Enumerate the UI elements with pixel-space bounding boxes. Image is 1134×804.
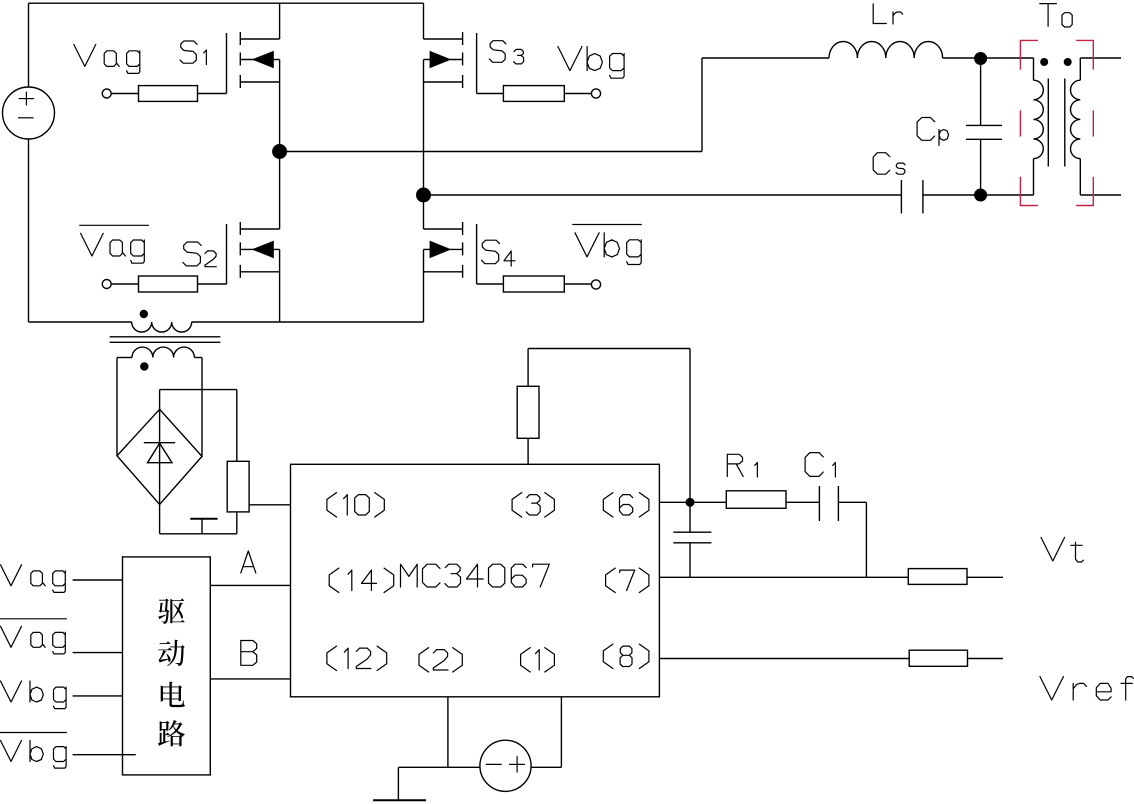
- wire: [943, 57, 981, 59]
- label S1: [180, 41, 206, 65]
- driver box: [123, 557, 211, 775]
- wire: [424, 194, 902, 196]
- bias source: [480, 740, 531, 791]
- pin (14): [329, 568, 394, 592]
- wire: [423, 60, 425, 196]
- label Vbg-bar: [572, 225, 642, 265]
- wire: [116, 358, 118, 456]
- capacitor Cp: [966, 59, 1002, 196]
- wire: [398, 766, 480, 768]
- wire: [981, 194, 1034, 196]
- inductor Lr: [829, 41, 943, 58]
- wire pin7: [659, 576, 908, 578]
- wire: [73, 754, 136, 756]
- resistor Vref: [909, 650, 967, 666]
- node CT primary polarity dot: [140, 310, 148, 318]
- wire pin8: [659, 658, 909, 660]
- T0 red bracket left: [1020, 40, 1038, 205]
- current transformer secondary winding: [117, 347, 202, 357]
- transformer T0 primary winding: [1034, 58, 1044, 195]
- wire: [701, 58, 703, 152]
- label 动: [158, 640, 185, 666]
- label A: [241, 551, 256, 573]
- wire: [968, 658, 1004, 660]
- wire: [279, 249, 281, 322]
- label Vref: [1040, 677, 1134, 700]
- label Lr: [873, 4, 902, 24]
- wire: [967, 576, 1003, 578]
- T0 red bracket right: [1076, 40, 1093, 205]
- label B: [241, 641, 257, 666]
- diode bridge diamond: [117, 409, 202, 504]
- label Vbg input: [1, 681, 67, 709]
- transistor S2: [227, 152, 280, 285]
- transistor S4: [424, 195, 477, 284]
- pin (6): [603, 493, 649, 517]
- wire: [423, 249, 425, 322]
- wire: [28, 3, 30, 87]
- wire feedback top: [528, 348, 690, 350]
- wire: [838, 502, 866, 577]
- wire pin10: [249, 504, 290, 506]
- wire B: [210, 678, 290, 680]
- label 驱: [158, 598, 184, 623]
- pin (3): [512, 493, 554, 517]
- label Vag input: [1, 565, 66, 593]
- diode symbol: [144, 390, 175, 534]
- resistor S1 gate: [102, 86, 226, 102]
- ground bias: [373, 767, 426, 800]
- wire: [786, 501, 819, 503]
- voltage source V-in: [3, 87, 55, 139]
- resistor S4 gate: [477, 276, 601, 292]
- wire: [28, 139, 30, 322]
- label Vbg-bar input: [0, 733, 67, 769]
- label T0: [1040, 4, 1072, 27]
- resistor S2 gate: [102, 276, 226, 292]
- wire: [1080, 57, 1121, 59]
- node T0 primary polarity dot: [1040, 58, 1048, 66]
- pin (8): [603, 644, 649, 668]
- label Vag-bar input: [0, 619, 67, 654]
- node bridge-left midpoint: [272, 144, 287, 159]
- wire: [280, 151, 702, 153]
- capacitor Cs: [901, 180, 923, 213]
- label Vbg: [558, 47, 624, 79]
- transformer T0 core: [1048, 79, 1065, 167]
- wire: [1080, 194, 1121, 196]
- wire pin6: [659, 501, 726, 503]
- wire: [201, 358, 203, 457]
- wire: [689, 349, 691, 503]
- node T0 secondary polarity dot: [1064, 58, 1072, 66]
- wire pin1: [560, 697, 562, 768]
- label S2: [183, 242, 216, 267]
- pin (1): [521, 648, 555, 672]
- label S3: [489, 41, 523, 64]
- label Cp: [917, 118, 949, 146]
- label S4: [482, 240, 516, 266]
- label 路: [158, 720, 185, 746]
- label R1: [727, 454, 757, 477]
- resistor R1: [726, 491, 786, 509]
- current transformer primary winding: [132, 322, 192, 332]
- wire: [531, 766, 561, 768]
- pin (12): [327, 646, 387, 670]
- wire: [73, 695, 123, 697]
- wire pin2: [447, 697, 449, 768]
- node Lr-Cp: [974, 52, 987, 65]
- pin (10): [327, 493, 384, 517]
- ground rectifier: [190, 519, 217, 534]
- transistor S3: [424, 3, 477, 93]
- wire: [236, 390, 238, 462]
- wire: [236, 512, 238, 534]
- wire: [923, 194, 981, 196]
- wire: [73, 579, 123, 581]
- resistor Vt: [908, 569, 967, 585]
- wire top rail: [29, 2, 424, 4]
- label 电: [161, 682, 185, 708]
- wire: [160, 389, 237, 391]
- transformer T0 secondary winding: [1071, 58, 1081, 195]
- current transformer core: [110, 337, 221, 343]
- node CT secondary polarity dot: [140, 362, 148, 370]
- label Vag: [74, 44, 140, 73]
- wire: [981, 57, 1034, 59]
- label Cs: [873, 153, 905, 175]
- label Vag-bar: [79, 225, 149, 263]
- node Cs-Cp: [974, 189, 987, 202]
- resistor S3 gate: [477, 86, 601, 102]
- capacitor C1: [819, 486, 838, 521]
- label Vt: [1041, 537, 1083, 562]
- label MC34067: [401, 564, 550, 587]
- capacitor pin6: [673, 502, 711, 577]
- wire bottom rail: [29, 321, 132, 323]
- node pin6: [686, 498, 695, 507]
- pin (7): [606, 568, 649, 592]
- wire: [160, 533, 237, 535]
- wire: [279, 60, 281, 152]
- wire: [73, 652, 123, 654]
- op-amp U1 MC34067: [291, 464, 660, 697]
- pin (2): [419, 648, 462, 672]
- resistor rectifier load: [227, 461, 249, 512]
- resistor feedback: [517, 349, 539, 465]
- wire A: [210, 584, 290, 586]
- transistor S1: [227, 3, 280, 93]
- node bridge-right midpoint: [416, 188, 431, 203]
- wire: [702, 57, 829, 59]
- label C1: [805, 453, 835, 477]
